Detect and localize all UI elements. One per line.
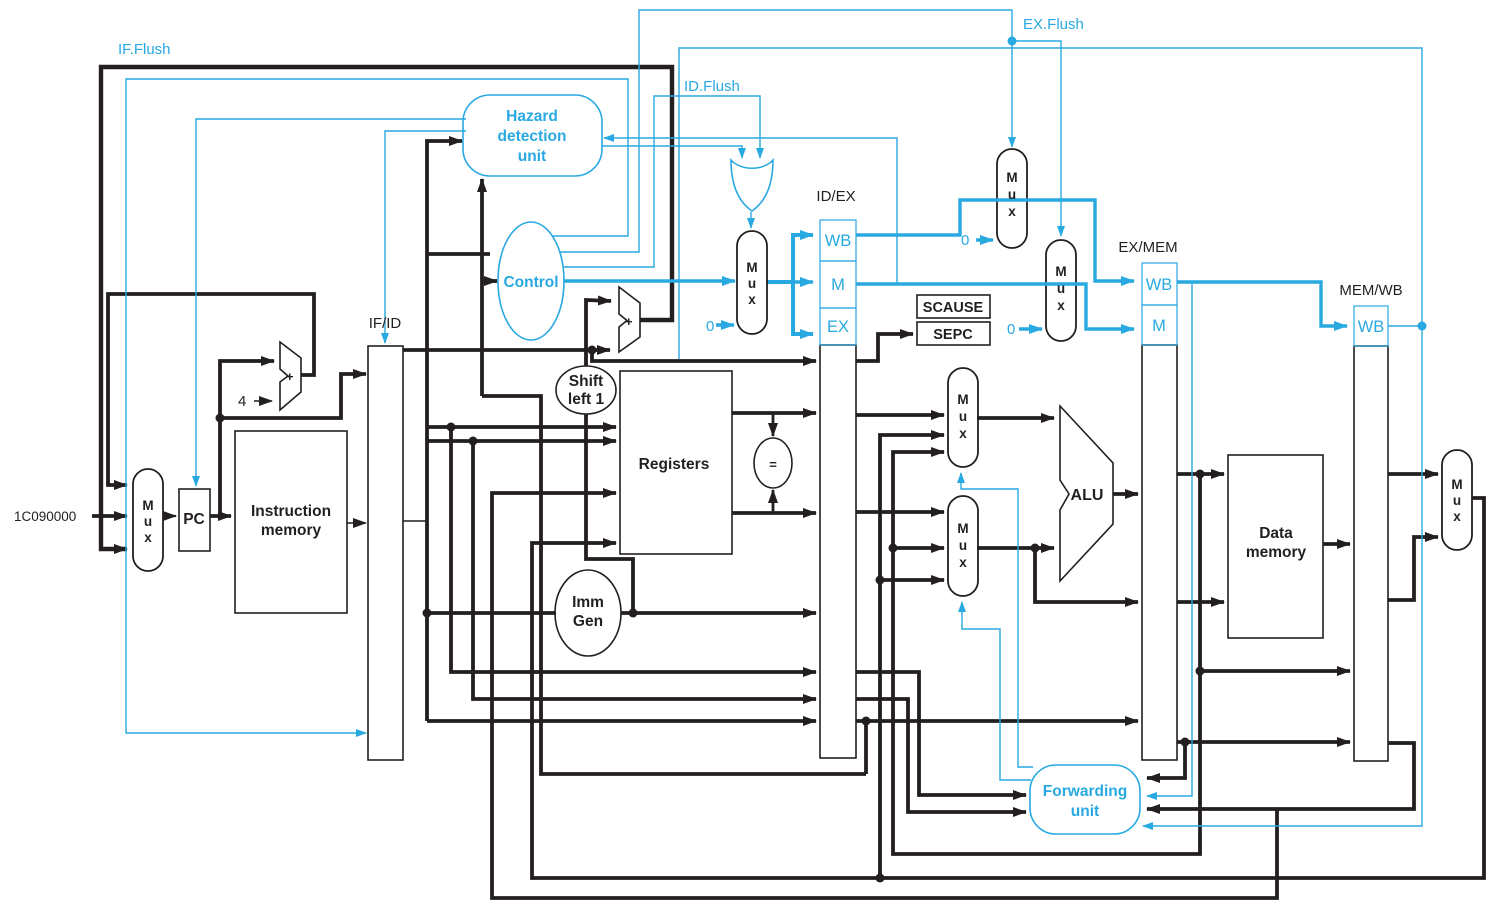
wire EX.Flush from Control up to top line [560,10,1012,252]
EX/MEM M field [1142,305,1177,345]
wire rd branch down to hazard tap line [864,721,868,774]
svg-text:u: u [748,276,756,291]
wire EX/MEM ALU result out to data memory address [1177,472,1224,476]
svg-text:M: M [1055,264,1066,279]
wire PC mux output to PC [163,515,176,517]
svg-text:Shift: Shift [569,373,603,390]
wire PC value from IF/ID to branch adder bottom input [403,348,610,352]
svg-text:0: 0 [961,232,969,249]
wire ALU result into EX/MEM [1113,492,1138,496]
wire zero constant into control zero mux [716,323,734,326]
svg-text:Forwarding: Forwarding [1043,783,1127,800]
svg-text:x: x [1057,298,1065,313]
junction dot immediate bus [423,609,432,618]
svg-text:0: 0 [1007,321,1015,338]
mux forward A [948,368,978,467]
wire zero constant into EX.Flush WB mux [976,238,993,241]
wire EX/MEM rd branch into forwarding unit [1147,742,1185,778]
wire IF.Flush from Control around left into IF/ID flush [126,79,628,733]
wire 1C090000 constant into PC mux [92,514,127,518]
svg-text:x: x [959,426,967,441]
svg-text:u: u [1008,187,1016,202]
hazard detection unit [463,95,602,176]
svg-text:Registers: Registers [639,456,710,473]
wire forward B control from forwarding unit to mux B [962,602,1031,780]
adder branch target [619,287,640,352]
wire EX/MEM store data out to data memory write data [1177,600,1224,604]
junction dot writeback line [876,874,885,883]
svg-text:memory: memory [261,522,322,539]
wire rs2 field down into ID/EX [473,441,816,699]
svg-text:x: x [144,530,152,545]
svg-text:x: x [1453,509,1461,524]
mux forward B [948,496,978,596]
svg-text:u: u [1453,493,1461,508]
svg-text:Data: Data [1259,525,1293,542]
wire instruction memory output to IF/ID [347,522,366,524]
svg-text:x: x [748,292,756,307]
adder PC+4 [280,342,301,410]
junction dot MEM/WB WB [1418,322,1427,331]
svg-text:Imm: Imm [572,594,604,611]
wire PC value branch into IF/ID [220,374,366,418]
wire constant 4 into adder [254,400,272,402]
svg-text:IF.Flush: IF.Flush [118,41,171,58]
wire ID/EX rs2 out to forwarding unit [856,699,1026,812]
wire instruction bus vertical [425,141,429,721]
svg-text:Instruction: Instruction [251,503,331,520]
svg-text:ALU: ALU [1071,487,1104,504]
svg-text:unit: unit [1071,803,1099,820]
wire MEM/WB WB output stub [1388,325,1422,327]
junction dot rs1 [447,423,456,432]
OR gate flush [731,160,773,211]
mux EX.Flush WB [997,149,1027,248]
ALU [1060,406,1113,581]
svg-text:EX/MEM: EX/MEM [1118,239,1177,256]
wire ID/EX read data 1 out to forward mux A [856,413,944,417]
wire rs1 field down into ID/EX [451,427,816,672]
forwarding unit [1030,765,1140,834]
wire MEM/WB WB line B across top down to forwarding unit [679,48,1422,826]
ID/EX WB field [820,220,856,261]
svg-text:+: + [286,369,294,384]
wire MEM/WB rd out to forwarding unit [1147,743,1414,809]
svg-text:M: M [957,521,968,536]
svg-text:x: x [1008,204,1016,219]
wire opcode riser up into hazard detection unit bottom [480,179,484,396]
svg-text:MEM/WB: MEM/WB [1339,282,1402,299]
svg-text:=: = [769,457,777,472]
svg-text:M: M [746,260,757,275]
wire PC value riser to branch adder top input [586,300,611,366]
wire exception/branch target loop: adder out up over top border down to PC mux [101,67,672,549]
immediate generator [555,570,621,656]
wire immediate field into Imm Gen [427,611,556,615]
wire writeback forwarding riser to mux A [880,435,944,878]
wire ID/EX read data 2 out to forward mux B [856,510,944,514]
wire control bundle EX arrow [793,282,813,334]
wire MEM/WB data out to writeback mux top input [1388,472,1438,476]
ID/EX M field [820,261,856,308]
svg-text:x: x [959,555,967,570]
junction dot PC riser [216,414,225,423]
wire ALU result forwarding riser [893,452,1200,854]
equality comparator [754,438,792,488]
pipeline register MEM/WB [1354,346,1388,761]
wire PC+4 feedback: adder out left down into PC mux input 1 [108,294,314,485]
svg-text:M: M [957,392,968,407]
wire hazard unit IF/ID write to IF/ID [385,131,466,343]
wire control bundle M arrow [793,280,813,283]
svg-text:+: + [625,314,633,329]
junction dot imm gen out [629,609,638,618]
wire forward mux A output into ALU [977,416,1054,420]
wire bus corner arrow into hazard detection unit [427,141,462,142]
wire equality tap from read data 2 [772,490,775,513]
svg-text:EX: EX [827,318,849,336]
wire data memory read data into MEM/WB [1323,542,1350,546]
svg-text:ID/EX: ID/EX [816,188,855,205]
wire EX/MEM WB tap down to forwarding unit [1147,282,1192,796]
wire PC value jog into ID/EX [592,350,816,361]
junction dot EX.Flush [1008,37,1017,46]
svg-text:WB: WB [1146,276,1173,294]
wire EX/MEM rd out to MEM/WB [1177,740,1350,744]
wire MEM/WB data out to writeback mux bottom input [1388,537,1438,600]
svg-text:M: M [1006,170,1017,185]
wire immediate branch up into shift left 1 [586,414,633,613]
wire writeback data to register write data [532,498,1484,878]
junction dot store data [1031,544,1040,553]
wire memory bypass into MEM/WB [1200,669,1350,673]
pipeline register ID/EX [820,345,856,758]
wire ALU result forward into mux B [893,546,944,550]
svg-text:left 1: left 1 [568,391,605,408]
wire registers read data 2 into ID/EX [732,511,816,515]
junction dot PC to ID/EX [588,346,597,355]
wire read register 1 line [427,425,616,429]
wire Imm Gen output into ID/EX [621,611,816,615]
svg-text:4: 4 [238,393,246,410]
svg-text:Gen: Gen [573,613,603,630]
wire hazard unit stall to OR gate [602,146,742,158]
register PC [179,489,210,551]
wire ID.Flush from Control to OR gate [563,96,760,267]
svg-text:u: u [959,538,967,553]
svg-text:SCAUSE: SCAUSE [923,300,984,316]
wire registers read data 1 into ID/EX [732,411,816,415]
wire ID/EX M through EX.Flush mux into EX/MEM M [856,284,1134,329]
svg-text:IF/ID: IF/ID [369,315,402,332]
junction dot rd after ID/EX [862,717,871,726]
wire rd field from bus into ID/EX [427,719,816,723]
svg-text:WB: WB [825,232,852,250]
svg-text:Hazard: Hazard [506,108,558,125]
wire read register 2 line [427,439,616,443]
mux EX.Flush M [1046,240,1076,341]
svg-text:memory: memory [1246,544,1307,561]
data memory [1228,455,1323,638]
svg-text:u: u [1057,281,1065,296]
wire Control output bundle into control zero mux [564,279,735,282]
register SCAUSE [917,295,990,318]
wire EX/MEM WB to MEM/WB WB [1177,282,1347,326]
junction dot writeback forward mux B [876,576,885,585]
shift left 1 [556,366,616,414]
pipeline register EX/MEM [1142,345,1177,760]
wire hazard unit instruction tap riser [482,396,866,774]
wire store data from mux B down into EX/MEM [1035,548,1138,602]
svg-text:WB: WB [1358,318,1385,336]
junction dot EX/MEM rd [1181,738,1190,747]
wire ID/EX PC out to SEPC [856,334,913,361]
svg-text:M: M [831,276,845,294]
wire forward mux B output into ALU [977,546,1054,550]
wire PC value riser to +4 adder top input [220,361,274,516]
junction dot rs2 [469,437,478,446]
wire PC output to instruction memory [210,514,231,518]
svg-text:M: M [1451,477,1462,492]
svg-text:u: u [144,514,152,529]
svg-text:unit: unit [518,148,546,165]
mux writeback [1442,450,1472,550]
svg-text:0: 0 [706,318,714,335]
registers file [620,371,732,554]
junction dot memory bypass [1196,667,1205,676]
svg-text:SEPC: SEPC [933,327,973,343]
wire zero constant into EX.Flush M mux [1019,327,1042,330]
wire ID/EX WB through EX.Flush mux into EX/MEM WB [856,200,1134,281]
svg-text:u: u [959,409,967,424]
wire hazard unit PCWrite to PC [196,119,466,486]
register SEPC [917,322,990,345]
svg-text:detection: detection [498,128,567,145]
svg-text:M: M [1152,317,1166,335]
wire ID/EX rs1 out to forwarding unit [856,672,1026,795]
svg-text:Control: Control [503,274,558,291]
instruction memory [235,431,347,613]
wire bus branch to opcode riser [427,252,490,256]
MEM/WB WB field [1354,306,1388,346]
wire opcode branch arrow into Control [482,279,497,283]
EX/MEM WB field [1142,263,1177,305]
control unit [498,222,564,340]
wire ID/EX MemRead tap to hazard detection unit [604,138,897,284]
wire rd field ID/EX out into EX/MEM [856,719,1138,723]
svg-text:ID.Flush: ID.Flush [684,78,740,95]
svg-text:PC: PC [183,511,205,528]
pipeline register IF/ID [368,346,403,760]
svg-text:EX.Flush: EX.Flush [1023,16,1084,33]
junction dot ALU result [1196,470,1205,479]
wire equality tap from read data 1 [772,413,775,436]
svg-text:M: M [142,498,153,513]
wire writeback forward into mux B [880,578,944,582]
wire IF/ID instruction out to instruction bus [403,520,427,522]
junction dot ALU forward mux B [889,544,898,553]
wire write register number down to registers [492,493,1277,898]
mux control zero [737,231,767,334]
wire control bundle to ID/EX WB M EX [767,235,813,282]
mux PC source select [133,469,163,571]
wire EX.Flush branch to second flush mux [1012,41,1061,236]
svg-text:1C090000: 1C090000 [14,509,76,524]
wire forward A control from forwarding unit to mux A [961,473,1033,767]
ID/EX EX field [820,308,856,345]
wire OR gate output into control zero mux [750,212,752,228]
